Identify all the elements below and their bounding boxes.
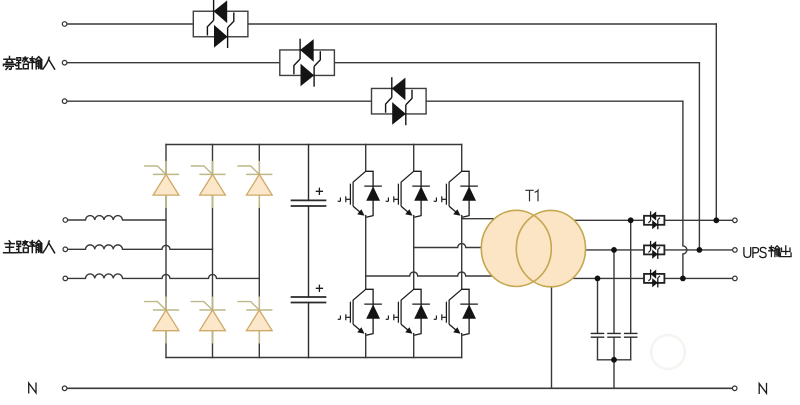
filter drop wire from line A [630, 220, 632, 333]
static bypass switch SW1 [193, 0, 248, 48]
transformer T1 neutral wire [551, 287, 553, 389]
DC link wire [308, 145, 310, 358]
label UPS letter U [744, 248, 751, 258]
label UPS letter S [760, 247, 766, 257]
label main input char zhu [4, 241, 16, 253]
DC negative bus [166, 357, 462, 359]
filter capacitor bus [598, 359, 631, 361]
label main input char ru [43, 241, 55, 253]
static bypass switch SW2 [280, 39, 335, 87]
capacitor C1 plates [292, 200, 326, 206]
junction dot line A filter [628, 217, 634, 223]
inverter leg3 vertical [461, 145, 463, 358]
mini static switch output A [644, 211, 664, 229]
neutral bus N [67, 387, 732, 389]
UPS output line B [535, 249, 735, 251]
thyristor rectifier bottom leg1 [144, 297, 179, 344]
IGBT module Q1 top leg1 [338, 171, 382, 217]
terminal bypass input phase3 [62, 99, 67, 104]
filter drop wire from line C [597, 278, 599, 333]
rectifier leg1 vertical [165, 145, 167, 358]
thyristor rectifier bottom leg3 [237, 297, 272, 344]
label bypass input char shu [29, 57, 42, 69]
DC positive bus [166, 144, 462, 146]
label UPS letter P [753, 248, 759, 258]
inverter output phase1 wire with hops [366, 272, 535, 276]
terminal N left [62, 386, 67, 391]
inverter output phase3 wire [462, 218, 535, 220]
transformer T1 primary outline [481, 210, 551, 286]
UPS output line C [535, 277, 735, 279]
wire bypass phase2 left [67, 62, 280, 64]
IGBT module Q6 bottom leg3 [434, 289, 478, 335]
junction dot line B filter [611, 247, 617, 253]
terminal main input phase1 [63, 218, 68, 223]
inverter leg1 vertical [365, 145, 367, 358]
wire bypass phase1 right [248, 23, 716, 25]
terminal bypass input phase2 [62, 60, 67, 65]
filter capacitor bottom wires [598, 337, 631, 360]
label UPS output char shu [769, 246, 780, 257]
transformer T1 secondary winding [516, 210, 585, 286]
mini static switch output B [644, 241, 664, 259]
watermark [651, 335, 685, 369]
transformer T1 secondary outline [516, 210, 585, 286]
wire bypass phase1 vertical drop [715, 24, 717, 220]
terminal main input phase3 [63, 276, 68, 281]
label main input char shu [29, 240, 42, 252]
label N left [29, 383, 36, 393]
inverter leg2 vertical [413, 145, 415, 358]
junction dot line C filter [595, 276, 601, 282]
IGBT module Q5 bottom leg2 [386, 289, 430, 335]
static bypass switch SW3 [372, 77, 427, 125]
transformer T1 primary winding [481, 210, 551, 286]
wire main input phase3 with inductor L3 and hops [68, 274, 260, 278]
thyristor rectifier top leg1 [144, 161, 179, 208]
terminal bypass input phase1 [62, 22, 67, 27]
capacitor C2 plates [292, 297, 326, 303]
wire bypass phase3 vertical drop with hop over output line B [683, 101, 687, 278]
label T1 [526, 190, 538, 201]
thyristor rectifier bottom leg2 [191, 297, 226, 344]
filter bank neutral drop [613, 360, 615, 389]
terminal main input phase2 [63, 247, 68, 252]
wire bypass phase3 right [426, 100, 683, 102]
wire bypass phase2 right [335, 62, 700, 64]
filter drop wire from line B [613, 250, 615, 334]
IGBT module Q3 top leg3 [434, 171, 478, 217]
wire main input phase1 with inductor L1 [68, 216, 166, 220]
label bypass input char lu [16, 57, 28, 69]
thyristor rectifier top leg3 [237, 161, 272, 208]
wire bypass phase2 vertical drop [698, 63, 700, 250]
inverter output phase2 wire with hop [414, 244, 535, 248]
junction dot line A bypass [713, 217, 719, 223]
filter capacitor Ca [591, 333, 605, 337]
capacitor C2 plus sign [316, 285, 322, 291]
terminal N right [732, 386, 737, 391]
junction dot line B bypass [697, 247, 703, 253]
rectifier leg2 vertical [212, 145, 214, 358]
label bypass input char pang [4, 57, 16, 70]
wire main input phase2 with inductor L2 and hop [68, 245, 213, 249]
terminal UPS output C [733, 276, 738, 281]
filter capacitor Cc [624, 333, 638, 337]
wire bypass phase1 left [67, 23, 193, 25]
filter capacitor Cb [607, 333, 621, 337]
capacitor C1 plus sign [316, 188, 322, 194]
IGBT module Q2 top leg2 [386, 171, 430, 217]
mini static switch output C [644, 269, 664, 287]
junction dot line C bypass [680, 276, 686, 282]
junction dot filter bank [611, 357, 617, 363]
label N right [759, 384, 766, 394]
wire bypass phase3 left [67, 100, 371, 102]
rectifier leg3 vertical [258, 145, 260, 358]
thyristor rectifier top leg2 [191, 161, 226, 208]
IGBT module Q4 bottom leg1 [338, 289, 382, 335]
label UPS output char chu [780, 246, 791, 257]
label main input char lu [16, 241, 28, 253]
terminal UPS output B [733, 248, 738, 253]
UPS output line A [535, 219, 735, 221]
terminal UPS output A [733, 218, 738, 223]
label bypass input char ru [43, 57, 55, 69]
